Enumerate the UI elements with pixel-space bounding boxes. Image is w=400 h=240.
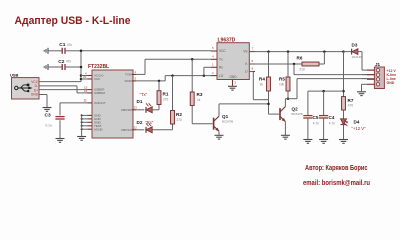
svg-text:C5: C5 [313, 115, 319, 120]
svg-text:RXD: RXD [125, 79, 132, 83]
svg-text:47n: 47n [67, 43, 73, 47]
svg-text:20: 20 [83, 75, 87, 79]
svg-text:USBDM: USBDM [94, 91, 105, 95]
svg-text:J1: J1 [375, 62, 381, 67]
svg-text:D1: D1 [137, 99, 143, 104]
svg-text:CBUS0: CBUS0 [121, 108, 131, 112]
svg-text:BC547B: BC547B [222, 119, 233, 123]
svg-text:4.7n: 4.7n [313, 121, 319, 125]
svg-text:Адаптер USB - K-L-line: Адаптер USB - K-L-line [15, 15, 131, 27]
svg-text:Tx: Tx [219, 58, 223, 62]
svg-text:11: 11 [84, 99, 88, 103]
svg-text:C2: C2 [58, 59, 64, 65]
svg-text:R5: R5 [279, 77, 285, 82]
svg-text:R1: R1 [163, 92, 169, 97]
svg-text:270: 270 [163, 98, 169, 102]
svg-text:D3: D3 [352, 42, 358, 47]
svg-text:R2: R2 [176, 112, 182, 117]
svg-text:R3: R3 [197, 92, 203, 97]
svg-text:TXD: TXD [125, 73, 132, 77]
svg-text:USB: USB [10, 72, 19, 77]
svg-text:1N4148: 1N4148 [352, 55, 363, 59]
svg-text:510: 510 [300, 67, 306, 71]
svg-text:Автор: Каряков Борис: Автор: Каряков Борис [305, 163, 368, 172]
svg-text:16: 16 [84, 89, 88, 93]
svg-text:C4: C4 [329, 115, 335, 120]
svg-text:D4: D4 [354, 119, 360, 124]
svg-text:GND: GND [31, 93, 39, 97]
svg-text:VCC: VCC [219, 49, 226, 53]
svg-text:R4: R4 [259, 77, 265, 82]
svg-text:47n: 47n [66, 60, 72, 64]
svg-text:AGND: AGND [94, 127, 104, 131]
svg-text:0.1u: 0.1u [46, 124, 52, 128]
svg-text:LI: LI [245, 70, 248, 74]
svg-text:R7: R7 [348, 98, 354, 103]
svg-text:GND: GND [229, 75, 237, 79]
svg-text:email: borismk@mail.ru: email: borismk@mail.ru [303, 178, 370, 187]
svg-text:BC547B: BC547B [292, 112, 303, 116]
svg-text:470: 470 [348, 104, 354, 108]
svg-text:C1: C1 [59, 42, 65, 48]
svg-text:1k: 1k [260, 82, 264, 86]
svg-text:GND: GND [387, 81, 395, 85]
svg-text:10k: 10k [279, 82, 285, 86]
svg-text:D2: D2 [137, 120, 143, 125]
svg-text:R6: R6 [297, 56, 303, 61]
svg-text:FT232BL: FT232BL [88, 64, 109, 70]
svg-text:LO: LO [219, 74, 224, 78]
svg-text:VS: VS [243, 50, 247, 54]
svg-text:Rx: Rx [219, 66, 223, 70]
svg-text:4.7n: 4.7n [329, 121, 335, 125]
svg-text:"Tx": "Tx" [140, 92, 148, 97]
svg-text:"+12 V": "+12 V" [352, 126, 367, 131]
svg-text:VCC: VCC [94, 77, 101, 81]
svg-text:3V3OUT: 3V3OUT [94, 101, 106, 105]
svg-text:C3: C3 [45, 112, 51, 118]
svg-text:Q1: Q1 [222, 114, 229, 119]
svg-text:270: 270 [177, 118, 183, 122]
svg-text:22: 22 [134, 125, 138, 129]
svg-text:Q2: Q2 [292, 107, 299, 112]
svg-text:23: 23 [134, 105, 138, 109]
svg-text:CBUS1: CBUS1 [121, 128, 131, 132]
svg-text:1k: 1k [197, 98, 201, 102]
